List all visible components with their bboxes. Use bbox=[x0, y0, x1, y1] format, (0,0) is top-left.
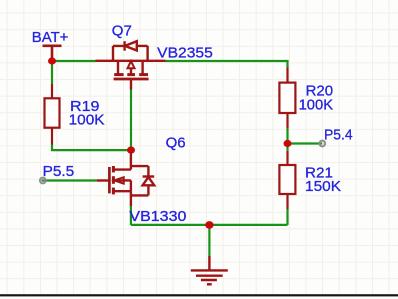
wire: Q7 drain to R20 top corner bbox=[166, 61, 288, 68]
svg-text:BAT+: BAT+ bbox=[32, 29, 69, 46]
svg-text:100K: 100K bbox=[69, 112, 105, 129]
diode line bbox=[113, 45, 148, 47]
wire: Q6 source down to bottom rail bbox=[130, 206, 132, 225]
terminal drops bbox=[117, 61, 119, 74]
wire: bottom rail bbox=[131, 224, 288, 226]
svg-text:150K: 150K bbox=[305, 178, 341, 195]
gate plate bbox=[108, 167, 111, 193]
transistor Q6 (N-MOSFET with body diode) bbox=[97, 152, 155, 206]
source-drain line bbox=[96, 60, 166, 62]
port P5.5 terminal dot bbox=[40, 178, 46, 184]
wire: ground branch bbox=[208, 225, 210, 256]
wire: Q7 gate down to node A bbox=[130, 89, 132, 150]
wire: bottom rail up to R21 bbox=[286, 209, 288, 225]
source pin bbox=[130, 191, 132, 206]
wire: P5.5 port to Q6 gate bbox=[42, 179, 97, 181]
left vertical to diode bbox=[112, 46, 114, 61]
wire: node to P5.4 port bbox=[288, 142, 323, 144]
power port BAT+ bbox=[43, 46, 62, 58]
gate plate bbox=[114, 78, 149, 81]
channel bars bbox=[114, 73, 148, 76]
substrate arrow bbox=[130, 68, 132, 74]
wire: node A into Q6 drain pin bbox=[130, 150, 132, 152]
svg-text:Q6: Q6 bbox=[166, 135, 186, 152]
gate pin bbox=[97, 179, 110, 181]
gate pin bbox=[130, 79, 132, 90]
body diode cathode bar bbox=[143, 175, 155, 177]
svg-text:P5.5: P5.5 bbox=[43, 163, 75, 180]
diode triangle bbox=[125, 41, 137, 50]
resistor R20 bbox=[279, 68, 295, 129]
svg-text:VB1330: VB1330 bbox=[129, 208, 186, 225]
channel bars bbox=[112, 166, 115, 194]
middle-to-source vertical bbox=[130, 180, 132, 191]
svg-text:VB2355: VB2355 bbox=[157, 45, 213, 62]
wire: BAT+ node down to R19 bbox=[51, 61, 53, 84]
resistor R21 bbox=[279, 151, 295, 209]
bottom contact bbox=[113, 190, 131, 192]
body diode bottom tap bbox=[131, 194, 149, 196]
svg-text:100K: 100K bbox=[299, 97, 334, 114]
transistor Q7 (P-MOSFET with body diode) bbox=[96, 41, 166, 89]
wire: BAT+ node to Q7 source bbox=[52, 60, 96, 62]
sheet border (bottom edge) bbox=[0, 294, 398, 296]
svg-text:Q7: Q7 bbox=[112, 22, 132, 39]
svg-text:P5.4: P5.4 bbox=[324, 126, 353, 143]
body arrow head bbox=[114, 177, 124, 183]
body diode triangle bbox=[143, 177, 155, 185]
node: R20/R21/P5.4 junction bbox=[284, 140, 292, 147]
port P5.4 terminal dot bbox=[319, 141, 325, 147]
drain pin bbox=[130, 152, 132, 170]
wire: R19 bottom to Q6 drain node bbox=[52, 145, 131, 151]
resistor R19 bbox=[45, 84, 60, 145]
wire: R21 top to node P5.4 junction bbox=[286, 128, 288, 151]
body diode top tap bbox=[131, 165, 149, 167]
node: bottom rail / ground junction bbox=[205, 221, 213, 229]
ground bbox=[191, 256, 228, 284]
node: BAT+/R19/Q7 junction bbox=[48, 57, 56, 64]
node A: Q7 gate / R19 / Q6 drain junction bbox=[127, 147, 135, 154]
top contact bbox=[113, 168, 131, 170]
diode cathode bar bbox=[123, 41, 125, 51]
body diode branch vertical bbox=[147, 166, 149, 195]
middle body line bbox=[113, 179, 131, 181]
right vertical to diode bbox=[146, 46, 148, 61]
